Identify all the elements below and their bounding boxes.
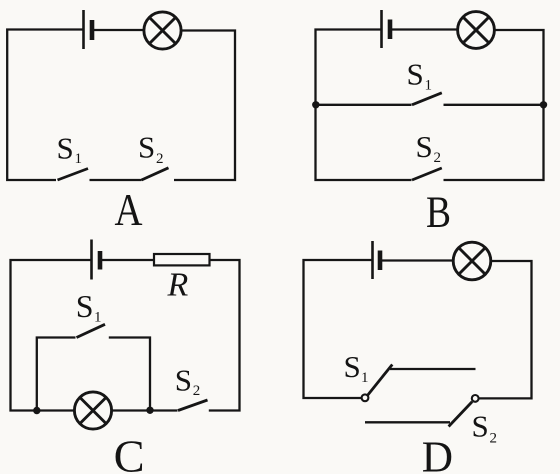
wire: B lamp to right side down to bottom	[444, 30, 544, 180]
svg-text:R: R	[167, 267, 189, 304]
wire: D top-left from battery to left side down to bottom-left corner	[304, 260, 373, 398]
wire: C battery to resistor	[100, 259, 154, 261]
switch pivot terminal (D S2) : open circle	[472, 395, 479, 402]
wire: B top-left from battery to left side down to bottom-left corner	[316, 30, 412, 181]
battery (cell) A : short thick plate	[90, 20, 95, 40]
switch S2 (A) blade	[142, 168, 169, 180]
wire: C bottom between lamp and right junction, then to S2	[112, 409, 178, 411]
wire: D upper throw contact line of S1	[390, 368, 476, 370]
wire: D lamp to right side down to bottom-right corner	[479, 261, 532, 398]
svg-text:C: C	[114, 431, 145, 474]
junction node dot (C right)	[146, 407, 153, 414]
battery (cell) B : long plate	[380, 10, 383, 48]
wire: B middle parallel branch right part	[444, 104, 544, 106]
svg-text:B: B	[426, 188, 451, 237]
lamp L (A) : circle with cross	[144, 12, 181, 49]
switch S2 (C) blade	[178, 400, 208, 411]
wire: A battery to lamp	[92, 29, 144, 31]
battery (cell) D : long plate	[371, 241, 374, 279]
lamp L (C) : circle with cross	[74, 392, 111, 429]
switch S1 (A) blade	[58, 169, 89, 181]
junction node dot (C left)	[33, 407, 40, 414]
switch S1 (C) blade	[77, 324, 106, 337]
svg-text:A: A	[115, 185, 143, 235]
wire: C parallel branch right part and right vertical	[109, 338, 150, 411]
lamp L (D) : circle with cross	[453, 242, 491, 280]
junction node dot (B right)	[540, 101, 547, 108]
wire: C parallel branch with S1: left vertical and left part	[37, 338, 76, 411]
switch S1 (B) blade	[412, 93, 442, 105]
switch S1 (D) blade	[368, 365, 393, 396]
battery (cell) A : long plate	[82, 10, 85, 49]
battery (cell) B : short thick plate	[388, 20, 393, 40]
battery (cell) C : short thick plate	[98, 251, 103, 270]
wire: D lower throw contact line of S2	[365, 421, 450, 423]
junction node dot (B left)	[312, 101, 319, 108]
wire: B battery to lamp	[390, 28, 458, 30]
battery (cell) D : short thick plate	[378, 251, 383, 271]
wire: C top-left from battery to left side down to bottom-left corner	[11, 260, 92, 411]
wire: A between S1 and S2	[90, 179, 142, 181]
wire: A lamp to right side down to bottom	[174, 31, 235, 181]
resistor R : rectangle	[154, 254, 210, 265]
switch S2 (B) blade	[412, 168, 442, 180]
wire: A top-left from battery to left side down to switch S1	[7, 30, 82, 181]
wire: C resistor to right side down to bottom	[209, 260, 240, 411]
wire: C bottom between left corner and lamp	[33, 409, 75, 411]
lamp L (B) : circle with cross	[458, 12, 495, 49]
wire: B middle parallel branch left part	[316, 104, 412, 106]
wire: D battery to lamp	[380, 259, 453, 261]
svg-text:D: D	[422, 431, 453, 474]
switch S2 (D) blade	[449, 402, 473, 427]
battery (cell) C : long plate	[90, 240, 93, 280]
switch pivot terminal (D S1) : open circle	[362, 394, 369, 401]
